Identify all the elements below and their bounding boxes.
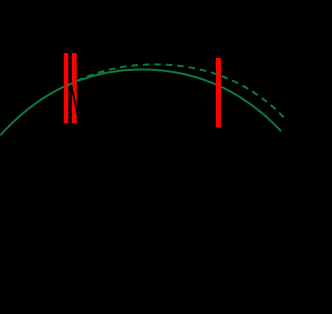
annotation arrow line over bar 2 — [70, 81, 77, 115]
wall bar 3 (single red bar) — [216, 58, 221, 128]
wall bar 2 (right red bar of pair) — [72, 53, 77, 123]
wall bar 1 (left red bar of pair) — [64, 53, 69, 123]
dashed trajectory curve — [64, 64, 287, 120]
solid trajectory curve — [1, 70, 281, 135]
